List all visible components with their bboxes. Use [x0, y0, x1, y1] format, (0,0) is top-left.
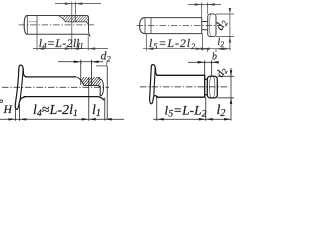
- bottom dim arrows: [157, 118, 231, 121]
- shank outline: [156, 75, 205, 97]
- end inner face: [99, 85, 101, 96]
- top dim arrows: [65, 2, 83, 5]
- top dim arrows: [195, 3, 215, 6]
- b dim arrows: [201, 47, 223, 50]
- tail flare: [86, 31, 90, 36]
- centerline: [2, 86, 109, 88]
- centerline: [137, 25, 223, 27]
- cap junction: [26, 16, 28, 35]
- bottom extension lines: [146, 34, 202, 51]
- head right face: [154, 68, 155, 96]
- top dimension line: [188, 61, 218, 63]
- d2 dim arrows: [229, 8, 232, 43]
- body outline: [145, 18, 202, 34]
- top dim ticks: [205, 60, 212, 64]
- bottom dim arrows: [37, 47, 95, 50]
- top dim ticks: [72, 2, 76, 6]
- body outline: [27, 16, 89, 35]
- head: [15, 65, 26, 109]
- top dim ticks: [81, 60, 92, 64]
- top dimension line: [188, 4, 221, 6]
- d2 extension lines: [217, 76, 234, 98]
- centerline: [140, 86, 229, 88]
- head extension lines: [16, 78, 89, 121]
- d2 dimension line: [229, 14, 231, 51]
- l4 l1 dim arrows: [82, 118, 112, 121]
- hatch: [76, 77, 105, 88]
- left bore line: [150, 18, 152, 34]
- hatch: [59, 14, 93, 23]
- cap junction: [144, 18, 146, 34]
- d2 leader line: [96, 62, 107, 66]
- d2 dim arrows: [230, 70, 233, 104]
- d2 dimension line: [230, 68, 232, 121]
- end dome cap: [98, 77, 104, 95]
- left bore inner line: [29, 21, 38, 23]
- extension line a: [71, 4, 73, 50]
- centerline: [19, 24, 96, 26]
- extension line b: [74, 4, 76, 22]
- small circle mark: [0, 100, 3, 103]
- bottom dimension line: [153, 118, 231, 120]
- H dim arrows: [9, 118, 27, 120]
- collar inner arc: [210, 77, 211, 98]
- b ticks: [208, 49, 216, 52]
- bottom dim arrows: [146, 47, 230, 50]
- neck: [202, 22, 208, 30]
- shank outline: [24, 77, 104, 100]
- collar inner arc right: [214, 77, 215, 98]
- top dim ticks: [202, 3, 208, 7]
- extension lines: [81, 62, 107, 121]
- d2 extension lines: [216, 14, 234, 37]
- bottom extension lines: [37, 34, 88, 50]
- collar: [208, 14, 216, 37]
- collar inner arc: [209, 14, 210, 36]
- neck: [205, 79, 208, 95]
- head right face: [20, 68, 23, 102]
- extension lines neck: [202, 5, 208, 18]
- bottom extension lines: [157, 97, 206, 121]
- head: [150, 65, 158, 104]
- top dim arrows: [74, 60, 99, 63]
- svg-text:b: b: [212, 52, 217, 63]
- top dimension line: [58, 61, 103, 63]
- bore cone inner line: [58, 16, 89, 25]
- bore cone inner line: [77, 77, 100, 87]
- bottom dimension line: [33, 48, 108, 50]
- left bore line: [36, 16, 38, 35]
- svg-text:H: H: [3, 104, 13, 116]
- bottom dimension line: [143, 48, 231, 50]
- bottom dimension line: [0, 118, 124, 120]
- top dim arrows: [198, 61, 219, 64]
- extension lines neck: [205, 62, 212, 76]
- top dimension line: [55, 3, 101, 5]
- collar: [207, 76, 217, 98]
